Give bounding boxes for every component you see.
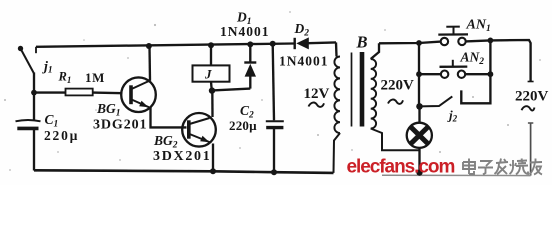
svg-text:220µ: 220µ [44,128,79,143]
svg-text:3DG201: 3DG201 [93,118,147,133]
svg-text:1M: 1M [85,70,105,85]
svg-text:BG2: BG2 [153,133,178,151]
svg-text:elecfans.com: elecfans.com [347,157,455,178]
svg-text:220V: 220V [515,89,549,105]
svg-text:3DX201: 3DX201 [153,149,211,164]
svg-text:R1: R1 [58,70,72,86]
svg-text:1N4001: 1N4001 [279,54,329,69]
svg-text:BG1: BG1 [96,101,121,119]
svg-text:AN2: AN2 [460,50,485,68]
svg-text:D2: D2 [294,21,310,39]
svg-text:1N4001: 1N4001 [220,24,270,39]
svg-text:C1: C1 [45,112,59,130]
svg-text:B: B [356,33,368,52]
svg-text:AN1: AN1 [466,18,491,35]
svg-text:12V: 12V [304,86,330,102]
svg-text:j1: j1 [42,60,53,76]
svg-text:j2: j2 [447,108,458,124]
svg-text:220V: 220V [381,78,415,94]
svg-text:220µ: 220µ [229,118,257,133]
svg-text:J: J [204,67,212,82]
